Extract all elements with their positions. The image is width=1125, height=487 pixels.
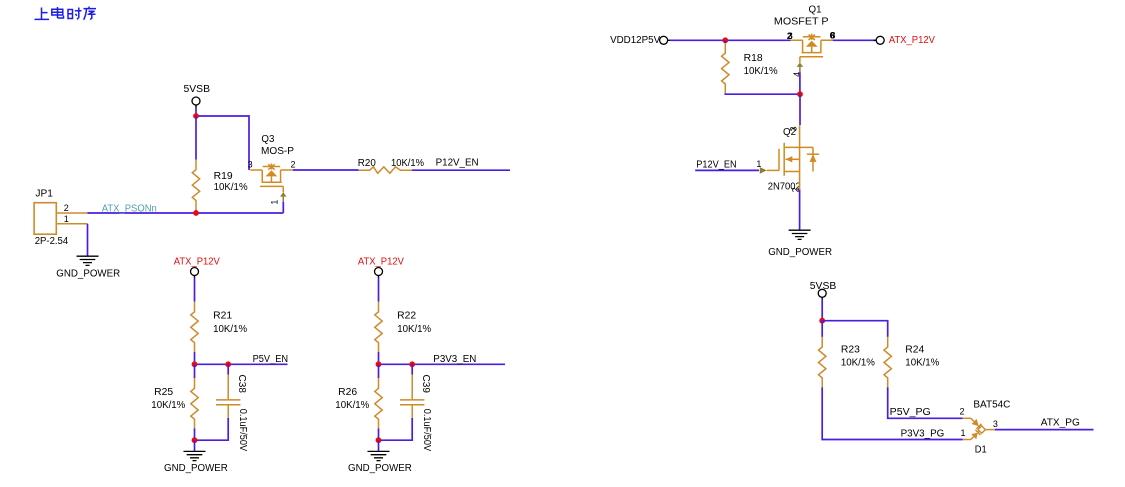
wire to R21 (194, 278, 196, 302)
resistor R24 (884, 337, 891, 387)
wire VDD rail (670, 39, 791, 41)
resistor R23 (819, 337, 826, 387)
wire cap C39 bottom (411, 405, 413, 418)
resistor R25 (191, 378, 198, 428)
wire R26 bottom (378, 429, 380, 441)
svg-text:VDD12P5V: VDD12P5V (610, 35, 660, 46)
wire ATX_PSONn (88, 212, 284, 214)
wire to gnd branch2 (378, 440, 380, 451)
junction VDD/R18 (722, 37, 728, 43)
capacitor C38 (216, 400, 240, 405)
svg-text:10K/1%: 10K/1% (213, 324, 247, 335)
wire Q1 gate down (799, 72, 801, 94)
wire R26 top (378, 364, 380, 378)
svg-text:GND_POWER: GND_POWER (164, 463, 228, 474)
wire ATX_PG (995, 429, 1094, 431)
svg-text:10K/1%: 10K/1% (335, 400, 369, 411)
junction 5VSB right (819, 318, 825, 324)
svg-text:R18: R18 (744, 53, 763, 64)
svg-text:R23: R23 (841, 344, 860, 355)
transistor Q1 (mirrored pmos) (790, 34, 833, 72)
wire R19 top (195, 116, 197, 160)
svg-text:10K/1%: 10K/1% (397, 324, 431, 335)
power terminal 5VSB circle right (818, 289, 826, 297)
svg-text:10K/1%: 10K/1% (905, 358, 939, 369)
wire P3V3_EN (379, 363, 506, 365)
svg-text:P12V_EN: P12V_EN (436, 157, 479, 168)
transistor Q3 (250, 164, 292, 202)
svg-text:R26: R26 (338, 387, 357, 398)
wire P12V_EN (412, 169, 510, 171)
ground JP1 (77, 256, 99, 265)
wire R24 to D1 pin2 (888, 387, 963, 418)
wire cap C38 top (227, 364, 229, 374)
svg-text:P5V_PG: P5V_PG (890, 407, 931, 418)
svg-text:R19: R19 (214, 171, 233, 182)
diode D1 common cathode diamond (978, 426, 985, 433)
wire R21 bottom to node (194, 352, 196, 364)
wire 5VSB to Q3 pin3 (196, 116, 249, 170)
resistor R22 (375, 302, 382, 352)
svg-text:10K/1%: 10K/1% (744, 66, 778, 77)
wire R18 bottom to gate node (725, 92, 800, 95)
junction ATX_PSONn / R19 (193, 210, 199, 216)
diode D1 pin2 branch (963, 417, 971, 419)
svg-text:GND_POWER: GND_POWER (348, 463, 412, 474)
svg-text:R21: R21 (213, 311, 232, 322)
wire to R22 (378, 278, 380, 302)
transistor Q2 (2N7002 N-MOSFET) (767, 125, 819, 190)
svg-text:R24: R24 (905, 344, 924, 355)
junction cap tap 2 (409, 361, 415, 367)
svg-text:C38: C38 (236, 375, 247, 394)
svg-text:P3V3_PG: P3V3_PG (901, 428, 945, 439)
wire cap C39 top (411, 364, 413, 374)
svg-text:Q1: Q1 (809, 5, 822, 16)
svg-text:Q3: Q3 (261, 134, 274, 145)
svg-text:R20: R20 (358, 158, 376, 169)
power terminal ATX_P12V circle right (876, 36, 884, 44)
svg-text:BAT54C: BAT54C (973, 400, 1010, 411)
capacitor C39 (400, 400, 424, 405)
ground branch1 (184, 451, 206, 460)
junction cap tap (225, 361, 231, 367)
svg-text:2P-2.54: 2P-2.54 (35, 236, 69, 247)
wire to gnd branch1 (194, 440, 196, 451)
resistor R20 (359, 167, 412, 174)
junction node P3V3_EN (376, 361, 382, 367)
svg-text:JP1: JP1 (35, 188, 53, 199)
svg-text:10K/1%: 10K/1% (391, 158, 424, 169)
svg-text:R22: R22 (397, 311, 416, 322)
resistor R26 (375, 378, 382, 428)
svg-text:2: 2 (291, 160, 296, 170)
wire D1 pin3 lead (985, 429, 995, 431)
svg-text:GND_POWER: GND_POWER (768, 247, 832, 258)
svg-text:D1: D1 (975, 444, 987, 455)
diode D1 pin1 branch (963, 439, 971, 441)
junction gnd node branch1 (192, 437, 198, 443)
wire to R24 top (822, 321, 888, 337)
svg-text:10K/1%: 10K/1% (841, 358, 875, 369)
wire P12V_EN to Q2 gate (695, 169, 759, 171)
svg-text:10K/1%: 10K/1% (151, 400, 185, 411)
svg-text:P12V_EN: P12V_EN (696, 159, 736, 170)
svg-text:3: 3 (993, 419, 998, 429)
resistor R19 (192, 160, 199, 210)
svg-text:ATX_P12V: ATX_P12V (358, 256, 404, 267)
svg-text:10K/1%: 10K/1% (214, 182, 248, 193)
svg-text:ATX_P12V: ATX_P12V (174, 256, 220, 267)
wire Q1 out to ATX_P12V (833, 39, 876, 41)
wire P5V_EN (195, 363, 288, 365)
svg-text:GND_POWER: GND_POWER (56, 269, 120, 280)
svg-text:2: 2 (64, 203, 69, 213)
svg-text:P3V3_EN: P3V3_EN (433, 354, 476, 365)
svg-text:1: 1 (270, 200, 280, 205)
junction node P5V_EN (192, 361, 198, 367)
wire JP1 pin1 to gnd (87, 224, 89, 256)
wire R25 bottom (194, 429, 196, 441)
wire R19 bottom (195, 210, 197, 213)
svg-text:C39: C39 (420, 375, 431, 394)
wire 5VSB drop right (821, 299, 823, 320)
svg-text:MOSFET P: MOSFET P (774, 17, 829, 28)
wire R18 top (724, 40, 726, 43)
svg-text:ATX_P12V: ATX_P12V (889, 35, 935, 46)
wire Q2 source to gnd (799, 190, 801, 230)
junction gate node (797, 91, 803, 97)
resistor R21 (191, 302, 198, 352)
junction 5VSB (193, 113, 199, 119)
wire Q3 pin1 down (282, 202, 284, 213)
wire gate node to Q2 drain (799, 94, 801, 125)
svg-text:MOS-P: MOS-P (261, 146, 294, 157)
title 上电时序 (drawn as paths) (35, 7, 97, 20)
svg-text:R25: R25 (154, 387, 173, 398)
ground branch2 (368, 451, 390, 460)
power terminal ATX_P12V circle (191, 268, 199, 276)
svg-text:8: 8 (830, 31, 835, 41)
svg-text:5VSB: 5VSB (184, 84, 211, 95)
wire R23 top (821, 321, 823, 337)
svg-text:0.1uF/50V: 0.1uF/50V (237, 409, 248, 452)
wire Q3 pin2 to R20 (293, 169, 359, 171)
resistor R18 (722, 43, 729, 93)
svg-text:3: 3 (789, 126, 799, 131)
junction gnd node branch2 (376, 437, 382, 443)
svg-text:1: 1 (756, 159, 761, 169)
svg-text:3: 3 (788, 31, 793, 41)
svg-text:ATX_PSONn: ATX_PSONn (102, 204, 157, 215)
svg-text:1: 1 (64, 214, 69, 224)
wire cap C38 bottom (227, 405, 229, 418)
wire R25 top (194, 364, 196, 378)
svg-text:1: 1 (961, 428, 966, 438)
wire R22 bottom to node (378, 352, 380, 364)
svg-text:ATX_PG: ATX_PG (1041, 417, 1080, 428)
power terminal ATX_P12V circle 2 (375, 268, 383, 276)
wire R23 to D1 pin1 (822, 387, 963, 439)
svg-text:3: 3 (248, 160, 253, 170)
svg-text:0.1uF/50V: 0.1uF/50V (421, 409, 432, 452)
ground Q2 (789, 230, 811, 239)
svg-text:2: 2 (960, 406, 965, 416)
power terminal 5VSB circle (192, 97, 200, 105)
power terminal VDD12P5V circle (660, 36, 668, 44)
wire 5VSB drop (195, 107, 197, 116)
svg-text:P5V_EN: P5V_EN (253, 354, 289, 365)
